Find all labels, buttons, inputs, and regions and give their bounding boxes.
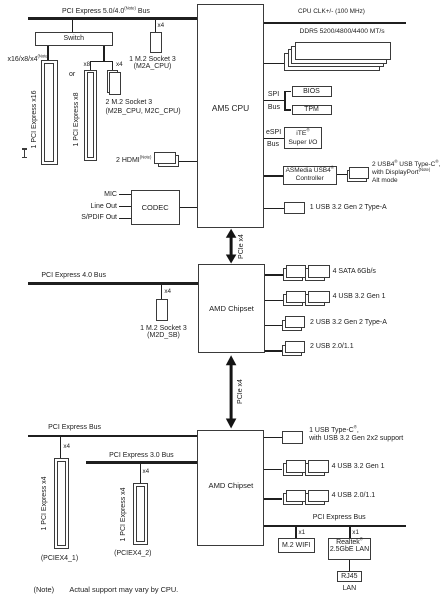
wire: HDMI to CPU bbox=[179, 161, 197, 162]
bus label: PCI Express 5.0/4.0 Bus bbox=[62, 8, 150, 15]
arrow: PCIe x4 CPU to chipset 1 bbox=[224, 228, 240, 265]
wire: Line Out bbox=[119, 206, 131, 207]
arrow: PCIe x4 chipset1 to chipset2 bbox=[224, 353, 240, 430]
box: 2 M.2 Socket back bbox=[107, 70, 118, 93]
wire: Switch to x16 slot bbox=[47, 46, 48, 61]
wire: chipset1 to USB 2.0 bbox=[265, 350, 282, 351]
wire: bracket to BIOS bbox=[284, 91, 291, 92]
connector: SATA front 2 bbox=[308, 265, 330, 278]
label: x1 (LAN) bbox=[352, 529, 359, 536]
label: 1 PCI Express x4 (rotated 2) bbox=[120, 486, 127, 543]
note: bottom bbox=[34, 585, 55, 594]
label: 4 USB 3.2 Gen 1 (c2) bbox=[332, 463, 385, 470]
wire: bus to M2D bbox=[161, 285, 162, 299]
memory: DDR5 stack rect3 bbox=[288, 49, 384, 67]
connector: c2 USB3.2G1 front 2 bbox=[308, 460, 329, 473]
box: 2 M.2 Socket front bbox=[109, 72, 120, 95]
bus label: PCI Express 4.0 Bus bbox=[41, 272, 106, 279]
box: Realtek 2.5GbE LAN bbox=[328, 538, 370, 561]
bus label: PCI Express 3.0 Bus bbox=[109, 452, 174, 459]
label: 2 USB 3.2 Gen 2 Type-A bbox=[310, 319, 387, 326]
label: eSPI bbox=[266, 129, 281, 136]
label: 1 USB 3.2 Gen 2 Type-A bbox=[310, 204, 387, 211]
label: LAN bbox=[337, 585, 362, 592]
connector: c2 USB2.0 back 2 bbox=[305, 493, 325, 506]
wire: SPI bracket vertical bbox=[284, 91, 285, 111]
label: PCIe x4 (rotated) bbox=[238, 233, 245, 260]
label: 1 M.2 Socket 3 (M2D_SB) bbox=[132, 325, 195, 339]
wire: S/PDIF Out bbox=[119, 218, 131, 219]
wire: MIC bbox=[119, 194, 131, 195]
bus wire: PCI Express (bottom right) bbox=[264, 525, 406, 528]
wire: Switch down right branch bbox=[103, 46, 104, 63]
label: 1 M.2 Socket 3 (M2A_CPU) bbox=[122, 56, 184, 70]
label: 1 USB Type-C bbox=[309, 427, 403, 442]
label: 2 M.2 Socket 3 (M2B_CPU, M2C_CPU) bbox=[106, 98, 181, 117]
wire: chipset2 to USB 2.0 bbox=[264, 498, 281, 499]
label: x4 (PCIEX4_1) bbox=[63, 443, 70, 450]
connector: USB3.2G2 front bbox=[285, 316, 305, 328]
label x8 bbox=[84, 61, 91, 68]
label: S/PDIF Out bbox=[80, 214, 117, 221]
connector: SATA back 2 bbox=[305, 268, 325, 281]
slot: PCIEX4_2 inner bbox=[136, 486, 145, 542]
label: (PCIEX4_2) bbox=[107, 550, 158, 557]
box: Switch bbox=[35, 32, 114, 46]
wire: bus to Switch bbox=[72, 20, 73, 32]
memory: DDR5 stack rect4 bbox=[284, 53, 380, 71]
wire: T-bar x8/x4 bbox=[90, 61, 113, 62]
label x4 (M2B/M2C) bbox=[116, 61, 123, 68]
bus label: CPU CLK bbox=[298, 8, 365, 15]
wire: bracket to TPM bbox=[284, 109, 291, 110]
label: 2 USB4 USB Type-C bbox=[372, 161, 440, 185]
connector: USB2.0 back bbox=[282, 345, 302, 357]
connector: HDMI back bbox=[158, 155, 179, 167]
slot: 1 PCI Express x16 outer bbox=[41, 60, 58, 166]
connector: USB 3.2 Gen 2 Type-A bbox=[284, 202, 305, 214]
connector: USB3.2G1 front 2 bbox=[308, 291, 330, 304]
wire: CPU to ASMedia bbox=[264, 175, 282, 176]
connector: USB3.2G1 front 1 bbox=[286, 291, 306, 304]
bus label: PCI Express Bus (bottom right) bbox=[313, 514, 366, 521]
wire: chipset1 to SATA bbox=[265, 274, 283, 275]
connector: USB3.2G1 back 2 bbox=[305, 294, 325, 307]
chip: AMD Chipset (1) bbox=[198, 264, 265, 353]
connector: USB3.2G1 back 1 bbox=[283, 294, 303, 307]
wire: to 2 M.2 sockets bbox=[112, 61, 113, 70]
bus wire: PCI Express 4.0 bbox=[28, 282, 198, 285]
wire: bus to M.2 WIFI bbox=[295, 527, 296, 538]
label: MIC bbox=[86, 191, 117, 198]
wire: bus to M2A socket bbox=[155, 20, 156, 32]
label: x4 (PCIEX4_2) bbox=[143, 468, 150, 475]
wire: chipset1 to USB 3.2 Gen 2 Type-A bbox=[265, 325, 282, 326]
connector: c2 USB3.2G1 back 2 bbox=[305, 463, 325, 476]
label: 1 PCI Express x16 (rotated) bbox=[31, 90, 38, 149]
label: Bus (eSPI) bbox=[267, 141, 279, 148]
label: DDR5 bbox=[300, 28, 385, 35]
chip: AMD Chipset (2) bbox=[197, 430, 264, 546]
wire: CPU to USB 3.2 Gen2 Type-A bbox=[264, 208, 284, 209]
wire: chipset2 to USB 3.2 Gen 1 bbox=[264, 469, 281, 470]
wire: CODEC to CPU bbox=[180, 207, 197, 208]
connector: c2 USB2.0 front 2 bbox=[308, 490, 329, 503]
wire: bus to PCIEX4_1 bbox=[60, 437, 61, 457]
connector: USB4 back bbox=[347, 170, 368, 182]
slot: 1 PCI Express x16 inner bbox=[44, 63, 54, 162]
connector: USB Type-C bbox=[282, 431, 303, 444]
wire: chipset1 to USB 3.2 Gen 1 bbox=[265, 300, 283, 301]
label: or bbox=[69, 71, 75, 78]
slot: PCIEX4_2 outer bbox=[133, 483, 148, 545]
bus wire: PCI Express 5.0/4.0 bbox=[28, 17, 197, 20]
label: Bus (SPI) bbox=[268, 104, 280, 111]
slot: 1 PCI Express x8 outer bbox=[84, 70, 97, 162]
box: ASMedia USB4 Controller bbox=[283, 166, 337, 185]
bus wire: CPU CLK bbox=[264, 22, 405, 24]
slot: 1 PCI Express x8 inner bbox=[87, 72, 95, 158]
label: 4 SATA 6Gb/s bbox=[333, 268, 376, 275]
label: Line Out bbox=[86, 203, 117, 210]
label: 1 PCI Express x4 (rotated 1) bbox=[41, 475, 48, 532]
box: TPM bbox=[292, 105, 332, 116]
box: BIOS bbox=[292, 86, 332, 97]
wire: ASMedia to USB4 ports bbox=[337, 174, 347, 175]
wire: bus to PCIEX4_2 bbox=[140, 464, 141, 484]
connector: USB2.0 front bbox=[285, 341, 305, 353]
connector: c2 USB2.0 front 1 bbox=[286, 490, 307, 503]
wire: CPU to DDR5 bbox=[264, 63, 283, 64]
label: x16/x8/x4 bbox=[8, 56, 50, 63]
bus wire: PCI Express 3.0 bbox=[86, 461, 197, 464]
label: 2 USB 2.0/1.1 bbox=[310, 343, 354, 350]
label: PCIe x4 (rotated, 2) bbox=[237, 378, 244, 405]
wire: to x8 slot bbox=[90, 61, 91, 70]
memory: DDR5 stack rect2 bbox=[291, 46, 387, 64]
slot: PCIEX4_1 outer bbox=[54, 458, 69, 550]
wire: eSPI bus bbox=[264, 138, 283, 139]
box: iTE Super I/O bbox=[284, 127, 322, 150]
wire: chipset2 to USB Type-C bbox=[264, 437, 281, 438]
connector: HDMI front bbox=[154, 152, 175, 164]
label: x1 (WIFI) bbox=[299, 529, 306, 536]
slot: PCIEX4_1 inner bbox=[57, 461, 66, 546]
chip: AM5 CPU bbox=[197, 4, 265, 228]
connector: USB3.2G2 back bbox=[282, 320, 302, 332]
label: (PCIEX4_1) bbox=[34, 555, 85, 562]
connector: c2 USB3.2G1 back 1 bbox=[283, 463, 303, 476]
connector: SATA back 1 bbox=[283, 268, 303, 281]
label: SPI bbox=[268, 91, 279, 98]
label: 4 USB 3.2 Gen 1 bbox=[333, 293, 386, 300]
label: 4 USB 2.0/1.1 (c2) bbox=[332, 492, 376, 499]
box: CODEC bbox=[131, 190, 180, 225]
box: 1 M.2 Socket 3 (M2A_CPU) bbox=[150, 32, 162, 54]
connector: SATA front 1 bbox=[286, 265, 306, 278]
wire: Realtek to RJ45 bbox=[349, 560, 350, 571]
box: RJ45 bbox=[337, 571, 362, 582]
bus label: PCI Express Bus (left) bbox=[48, 424, 101, 431]
connector: c2 USB2.0 back 1 bbox=[283, 493, 303, 506]
box: M2D socket bbox=[156, 299, 168, 322]
connector: USB4 front bbox=[349, 167, 369, 180]
label: 2 HDMI bbox=[116, 157, 151, 164]
label: x4 (M2D) bbox=[164, 288, 171, 295]
connector: c2 USB3.2G1 front 1 bbox=[286, 460, 307, 473]
bus wire: PCI Express (left) bbox=[28, 435, 197, 438]
memory: DDR5 stack front bbox=[295, 42, 391, 60]
wire: bus to Realtek bbox=[349, 527, 350, 538]
stray mark: serif I bbox=[24, 148, 25, 158]
label x4 (M2A) bbox=[158, 22, 165, 29]
wire: SPI bus bbox=[264, 100, 284, 101]
label: 1 PCI Express x8 (rotated) bbox=[73, 92, 80, 147]
box: M.2 WIFI bbox=[278, 538, 315, 553]
